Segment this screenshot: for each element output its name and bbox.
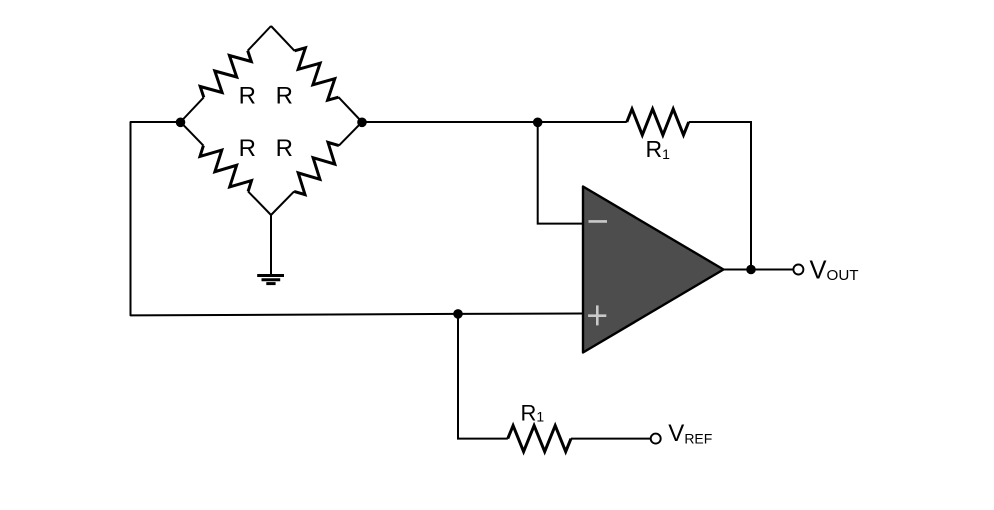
node non-inverting junction bbox=[453, 309, 463, 319]
wire inverting input branch bbox=[538, 122, 583, 224]
wire lead bridge bottom-right arm upper bbox=[339, 122, 362, 146]
wire left loop to non-inverting input bbox=[131, 122, 584, 315]
node output junction bbox=[746, 265, 756, 275]
terminal Vref bbox=[651, 434, 661, 444]
wire Vref resistor to terminal bbox=[571, 438, 651, 440]
resistor R top-left bridge arm bbox=[200, 51, 251, 98]
resistor R top-right bridge arm bbox=[295, 48, 339, 100]
op-amp U1 bbox=[583, 187, 724, 353]
wire bridge right node to feedback resistor bbox=[362, 121, 627, 123]
wire lead bridge bottom-right arm lower bbox=[271, 191, 294, 215]
wire lead bridge top-left arm lower bbox=[181, 97, 204, 122]
svg-text:R: R bbox=[239, 135, 256, 162]
resistor R bottom-right bridge arm bbox=[294, 142, 339, 194]
resistor R1 reference bbox=[508, 426, 571, 452]
svg-text:R: R bbox=[239, 83, 256, 110]
wire plus node down to Vref resistor bbox=[458, 314, 508, 439]
node inverting junction bbox=[533, 118, 543, 128]
node bridge right bbox=[357, 118, 367, 128]
wire lead bridge bottom-left arm lower bbox=[248, 191, 271, 215]
wire feedback resistor to output vertical bbox=[689, 122, 751, 270]
svg-text:R: R bbox=[276, 135, 293, 162]
terminal Vout bbox=[793, 265, 803, 275]
wire lead bridge bottom-left arm upper bbox=[181, 122, 204, 146]
ground bbox=[257, 276, 284, 284]
wire output to terminal bbox=[724, 269, 794, 271]
wire lead bridge top-left arm upper bbox=[248, 26, 271, 51]
wire lead bridge top-right arm lower bbox=[339, 97, 363, 122]
node bridge left bbox=[176, 118, 186, 128]
wire lead bridge top-right arm upper bbox=[271, 26, 295, 51]
ground stem bbox=[270, 215, 272, 275]
resistor R bottom-left bridge arm bbox=[200, 146, 252, 192]
svg-text:R: R bbox=[276, 83, 293, 110]
resistor R1 feedback bbox=[627, 109, 689, 135]
